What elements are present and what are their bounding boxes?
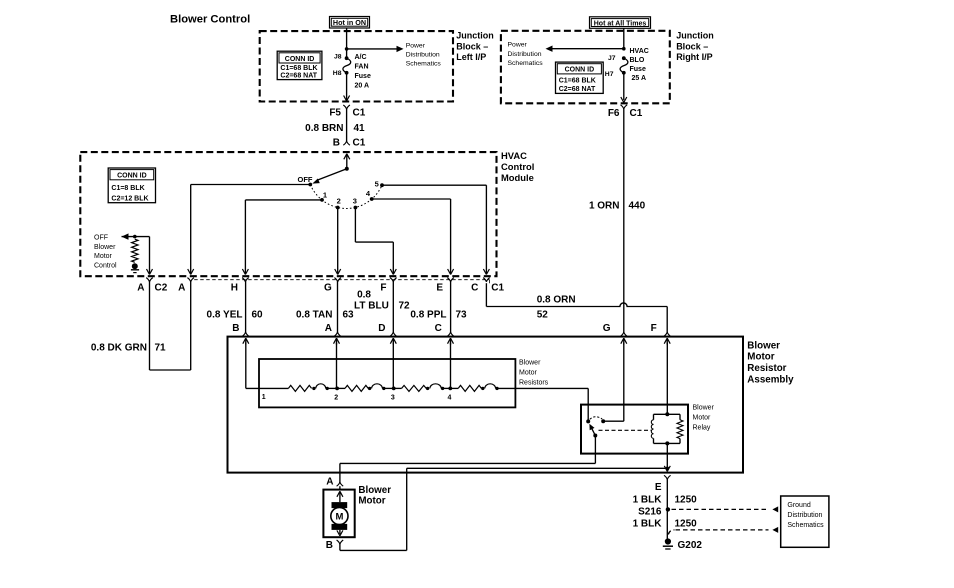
svg-text:Control: Control xyxy=(94,263,117,270)
svg-text:CONN ID: CONN ID xyxy=(285,56,315,63)
svg-text:G: G xyxy=(324,282,332,293)
svg-text:Power: Power xyxy=(406,42,426,49)
svg-text:C2=68 NAT: C2=68 NAT xyxy=(559,86,596,93)
svg-text:A/C: A/C xyxy=(355,54,367,61)
svg-text:71: 71 xyxy=(155,343,167,354)
svg-text:F5: F5 xyxy=(329,108,341,119)
svg-text:C2=68 NAT: C2=68 NAT xyxy=(280,72,317,79)
svg-text:C1: C1 xyxy=(353,138,366,149)
svg-text:2: 2 xyxy=(337,197,341,206)
svg-text:Motor: Motor xyxy=(519,370,538,377)
svg-text:C1: C1 xyxy=(630,108,643,119)
svg-text:Fuse: Fuse xyxy=(355,73,371,80)
svg-text:60: 60 xyxy=(252,310,264,321)
svg-text:Schematics: Schematics xyxy=(787,522,824,529)
svg-text:C1=68 BLK: C1=68 BLK xyxy=(280,65,317,72)
svg-text:Distribution: Distribution xyxy=(787,512,822,519)
svg-text:E: E xyxy=(655,482,662,493)
svg-text:440: 440 xyxy=(629,201,646,212)
svg-text:Power: Power xyxy=(508,42,528,49)
svg-text:Block –: Block – xyxy=(456,41,488,51)
svg-text:1250: 1250 xyxy=(675,519,698,530)
svg-text:3: 3 xyxy=(353,197,357,206)
svg-text:OFF: OFF xyxy=(298,175,313,184)
svg-text:Hot at All Times: Hot at All Times xyxy=(594,20,647,27)
svg-text:J7: J7 xyxy=(608,55,616,62)
svg-text:73: 73 xyxy=(456,310,468,321)
svg-text:Blower: Blower xyxy=(747,340,780,351)
svg-text:Blower: Blower xyxy=(693,405,715,412)
svg-text:Schematics: Schematics xyxy=(508,60,544,67)
svg-text:0.8 TAN: 0.8 TAN xyxy=(296,310,333,321)
svg-text:C: C xyxy=(435,323,442,334)
svg-text:HVAC: HVAC xyxy=(630,48,649,55)
svg-text:H: H xyxy=(231,282,238,293)
svg-text:5: 5 xyxy=(375,180,379,189)
svg-text:3: 3 xyxy=(391,395,395,402)
svg-text:C1: C1 xyxy=(353,108,366,119)
svg-text:C: C xyxy=(471,282,478,293)
svg-text:Ground: Ground xyxy=(787,502,810,509)
svg-text:Resistors: Resistors xyxy=(519,380,549,387)
svg-text:Blower: Blower xyxy=(94,244,116,251)
svg-text:Relay: Relay xyxy=(693,424,711,431)
svg-text:63: 63 xyxy=(343,310,355,321)
svg-text:4: 4 xyxy=(448,395,452,402)
svg-text:S216: S216 xyxy=(638,507,662,518)
svg-text:1: 1 xyxy=(323,191,327,200)
svg-text:Blower Control: Blower Control xyxy=(170,13,250,25)
svg-text:E: E xyxy=(436,282,443,293)
svg-text:2: 2 xyxy=(334,395,338,402)
svg-text:Motor: Motor xyxy=(693,415,712,422)
svg-text:LT BLU: LT BLU xyxy=(354,301,389,312)
svg-text:0.8 DK GRN: 0.8 DK GRN xyxy=(91,343,147,354)
svg-text:BLO: BLO xyxy=(630,57,645,64)
svg-text:Blower: Blower xyxy=(358,485,391,496)
svg-text:Hot in ON: Hot in ON xyxy=(333,18,366,27)
svg-text:Fuse: Fuse xyxy=(630,66,646,73)
svg-text:20 A: 20 A xyxy=(355,83,370,90)
svg-text:1 ORN: 1 ORN xyxy=(589,201,620,212)
svg-text:F: F xyxy=(651,323,657,334)
svg-text:1 BLK: 1 BLK xyxy=(633,519,663,530)
svg-text:B: B xyxy=(232,323,239,334)
svg-text:H8: H8 xyxy=(333,70,342,77)
svg-text:Left I/P: Left I/P xyxy=(456,52,486,62)
svg-text:FAN: FAN xyxy=(355,64,369,71)
svg-text:C1=68 BLK: C1=68 BLK xyxy=(559,77,596,84)
svg-text:B: B xyxy=(333,138,340,149)
svg-text:41: 41 xyxy=(354,123,366,134)
svg-text:M: M xyxy=(335,512,343,523)
svg-text:D: D xyxy=(378,323,385,334)
svg-text:A: A xyxy=(325,323,332,334)
svg-text:0.8: 0.8 xyxy=(357,289,371,300)
svg-text:G202: G202 xyxy=(678,540,703,551)
svg-text:Distribution: Distribution xyxy=(406,52,440,59)
svg-text:CONN ID: CONN ID xyxy=(117,173,147,180)
svg-text:Resistor: Resistor xyxy=(747,363,786,374)
svg-text:Module: Module xyxy=(501,172,534,183)
svg-text:Blower: Blower xyxy=(519,360,541,367)
svg-text:1 BLK: 1 BLK xyxy=(633,494,663,505)
svg-text:1: 1 xyxy=(262,394,266,401)
svg-text:CONN ID: CONN ID xyxy=(565,67,595,74)
svg-text:Assembly: Assembly xyxy=(747,374,794,385)
svg-text:C2: C2 xyxy=(155,282,168,293)
svg-text:72: 72 xyxy=(399,301,411,312)
svg-text:F6: F6 xyxy=(608,108,620,119)
svg-text:Junction: Junction xyxy=(676,31,714,41)
svg-text:C1: C1 xyxy=(491,282,504,293)
svg-text:B: B xyxy=(326,540,333,551)
svg-text:C1=8 BLK: C1=8 BLK xyxy=(111,185,144,192)
svg-text:0.8 BRN: 0.8 BRN xyxy=(305,123,343,134)
svg-text:G: G xyxy=(603,323,611,334)
svg-text:A: A xyxy=(137,282,144,293)
svg-text:0.8 PPL: 0.8 PPL xyxy=(410,310,446,321)
svg-text:0.8 ORN: 0.8 ORN xyxy=(537,295,576,306)
svg-text:A: A xyxy=(326,477,333,488)
svg-text:1250: 1250 xyxy=(675,494,698,505)
svg-text:25 A: 25 A xyxy=(632,75,647,82)
svg-text:0.8 YEL: 0.8 YEL xyxy=(207,310,243,321)
svg-text:52: 52 xyxy=(537,310,549,321)
svg-text:Schematics: Schematics xyxy=(406,61,442,68)
svg-text:F: F xyxy=(380,282,386,293)
svg-text:Control: Control xyxy=(501,161,534,172)
svg-text:Motor: Motor xyxy=(94,253,113,260)
svg-text:Block –: Block – xyxy=(676,41,708,51)
svg-text:A: A xyxy=(178,282,185,293)
svg-text:Junction: Junction xyxy=(456,31,494,41)
svg-text:H7: H7 xyxy=(605,71,614,78)
svg-text:OFF: OFF xyxy=(94,235,108,242)
svg-text:Right I/P: Right I/P xyxy=(676,52,713,62)
svg-text:C2=12 BLK: C2=12 BLK xyxy=(111,196,148,203)
svg-text:Motor: Motor xyxy=(747,352,774,363)
svg-text:J8: J8 xyxy=(334,54,342,61)
svg-text:Distribution: Distribution xyxy=(508,51,542,58)
svg-text:Motor: Motor xyxy=(358,496,385,507)
svg-text:HVAC: HVAC xyxy=(501,150,527,161)
